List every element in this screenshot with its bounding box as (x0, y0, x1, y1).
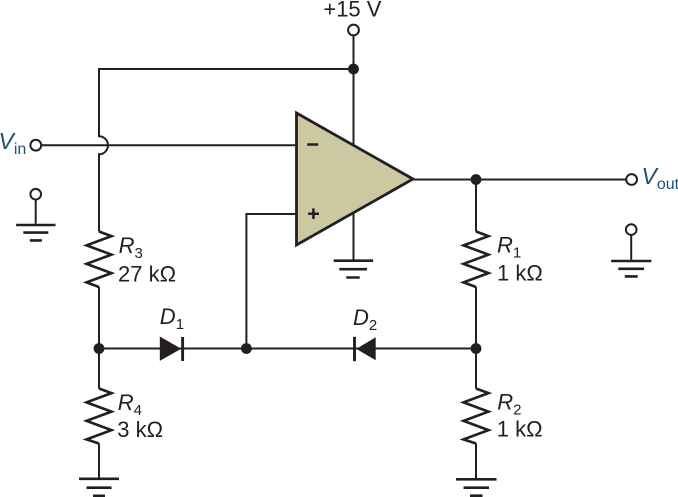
svg-text:R1: R1 (497, 232, 521, 261)
svg-text:R4: R4 (118, 390, 142, 419)
svg-text:Vin: Vin (0, 128, 26, 158)
svg-text:27 kΩ: 27 kΩ (118, 262, 176, 287)
svg-text:D1: D1 (160, 304, 184, 333)
svg-text:Vout: Vout (642, 163, 678, 193)
svg-text:3 kΩ: 3 kΩ (117, 417, 163, 442)
svg-text:+15 V: +15 V (323, 0, 381, 22)
svg-text:R2: R2 (497, 390, 521, 419)
svg-text:1 kΩ: 1 kΩ (497, 417, 543, 442)
svg-text:D2: D2 (353, 305, 377, 334)
svg-text:R3: R3 (119, 233, 143, 262)
svg-text:1 kΩ: 1 kΩ (497, 261, 543, 286)
